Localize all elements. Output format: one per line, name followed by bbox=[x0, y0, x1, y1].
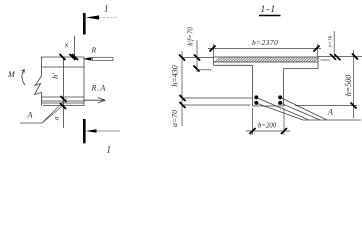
svg-text:x: x bbox=[62, 40, 70, 50]
beam top flange underside bbox=[42, 66, 85, 68]
flange hatched slab bbox=[214, 57, 319, 62]
rebar dot bottom right bbox=[278, 101, 282, 105]
flange right overhang underside bbox=[284, 68, 319, 70]
dimension h=500 line bbox=[353, 50, 355, 118]
web left edge bbox=[252, 65, 254, 106]
section cut mark bottom bbox=[84, 119, 120, 143]
svg-text:R: R bbox=[91, 45, 97, 54]
title underline bbox=[259, 15, 281, 17]
overhang x extension line bbox=[333, 31, 335, 57]
flange right edge drop bbox=[317, 62, 319, 69]
overhang x double tick bbox=[330, 54, 341, 61]
weld tick on plate bottom at mid line bbox=[60, 103, 66, 109]
flange top line extension to left dims bbox=[182, 57, 214, 59]
svg-text:h=500: h=500 bbox=[344, 75, 353, 96]
dimension h=430 top tick bbox=[179, 55, 185, 61]
flange left edge drop bbox=[213, 62, 215, 65]
svg-text:1: 1 bbox=[107, 145, 112, 155]
dimension b=200 left tick bbox=[250, 128, 256, 134]
force R arrow bbox=[83, 57, 113, 61]
flange top line extension to right bbox=[318, 56, 362, 58]
dimension b=2370 right extension bbox=[317, 44, 319, 58]
flange left overhang underside bbox=[214, 64, 253, 66]
beam bottom edge bbox=[43, 105, 84, 107]
weld tick on plate top at mid line bbox=[61, 96, 67, 102]
dimension h=430 line bbox=[181, 51, 183, 126]
bent bar line 2 bbox=[258, 104, 304, 121]
dimension b=200 right tick bbox=[281, 128, 287, 134]
svg-text:h=430: h=430 bbox=[171, 65, 180, 86]
svg-text:a=70: a=70 bbox=[170, 110, 179, 127]
dimension h=500 top tick bbox=[352, 54, 358, 60]
beam right end edge bbox=[83, 57, 85, 106]
dimension h=500 bottom tick bbox=[351, 103, 357, 109]
beam mid vertical line bbox=[63, 57, 65, 128]
dimension b=2370 right tick bbox=[314, 46, 320, 52]
beam left edge with break bbox=[35, 57, 42, 106]
svg-text:1-1: 1-1 bbox=[261, 5, 277, 15]
flange right ledge line bbox=[321, 59, 331, 61]
rebar dot top right bbox=[278, 95, 282, 99]
beam bottom plate seam line lower bbox=[42, 102, 85, 104]
svg-text:A: A bbox=[27, 111, 33, 120]
beam top edge bbox=[42, 56, 85, 58]
bottom bar horizontal line bbox=[303, 119, 361, 121]
x dimension extension line bbox=[74, 36, 76, 57]
bent bar line 4 bbox=[282, 104, 321, 121]
beam bottom plate seam line upper bbox=[42, 100, 85, 102]
dimension h'f=70 connector bbox=[197, 69, 212, 71]
dimension b=200 right extension bbox=[283, 108, 285, 135]
dimension b=200 line bbox=[246, 130, 290, 132]
svg-text:x=1k: x=1k bbox=[328, 35, 334, 48]
bent bar line 3 bbox=[282, 98, 328, 120]
web right edge bbox=[283, 69, 285, 106]
weld tick on beam top at mid line bbox=[60, 54, 66, 60]
dimension b=2370 left extension bbox=[213, 44, 215, 58]
web bottom edge bbox=[253, 105, 284, 107]
moment M curved arrow bbox=[21, 70, 25, 86]
svg-text:R.A: R.A bbox=[91, 83, 107, 92]
svg-text:1: 1 bbox=[104, 4, 109, 14]
dimension b=200 left extension bbox=[252, 108, 254, 135]
svg-text:h'f=70: h'f=70 bbox=[186, 27, 194, 46]
rebar dot bottom left bbox=[254, 101, 258, 105]
double weld tick on beam top at extension line bbox=[70, 54, 79, 60]
rebar row extension line upper bbox=[182, 97, 252, 99]
label A leader line bbox=[20, 99, 67, 124]
dimension b=2370 left tick bbox=[210, 46, 216, 52]
svg-text:b=2370: b=2370 bbox=[252, 38, 278, 47]
dimension b=2370 line bbox=[208, 48, 321, 50]
dimension h'f=70 lower tick bbox=[194, 66, 200, 72]
bent bar line 1 bbox=[258, 98, 310, 120]
svg-text:M: M bbox=[7, 70, 16, 79]
svg-text:A: A bbox=[327, 108, 333, 117]
reaction R.A arrow bbox=[84, 98, 105, 103]
rebar row extension line lower bbox=[182, 104, 250, 106]
beam bottom plate top line bbox=[42, 96, 85, 98]
dimension h'f=70 line bbox=[196, 40, 198, 72]
dimension a=70 bottom tick bbox=[180, 102, 186, 108]
dimension h'f=70 upper tick bbox=[194, 55, 200, 61]
svg-text:h': h' bbox=[51, 73, 60, 79]
beam soffit line right bbox=[295, 105, 357, 107]
rebar dot top left bbox=[254, 95, 258, 99]
section cut mark top bbox=[84, 13, 117, 35]
dimension h=430 bottom tick bbox=[180, 95, 186, 101]
svg-text:a: a bbox=[51, 116, 60, 120]
svg-text:b=200: b=200 bbox=[258, 123, 277, 130]
